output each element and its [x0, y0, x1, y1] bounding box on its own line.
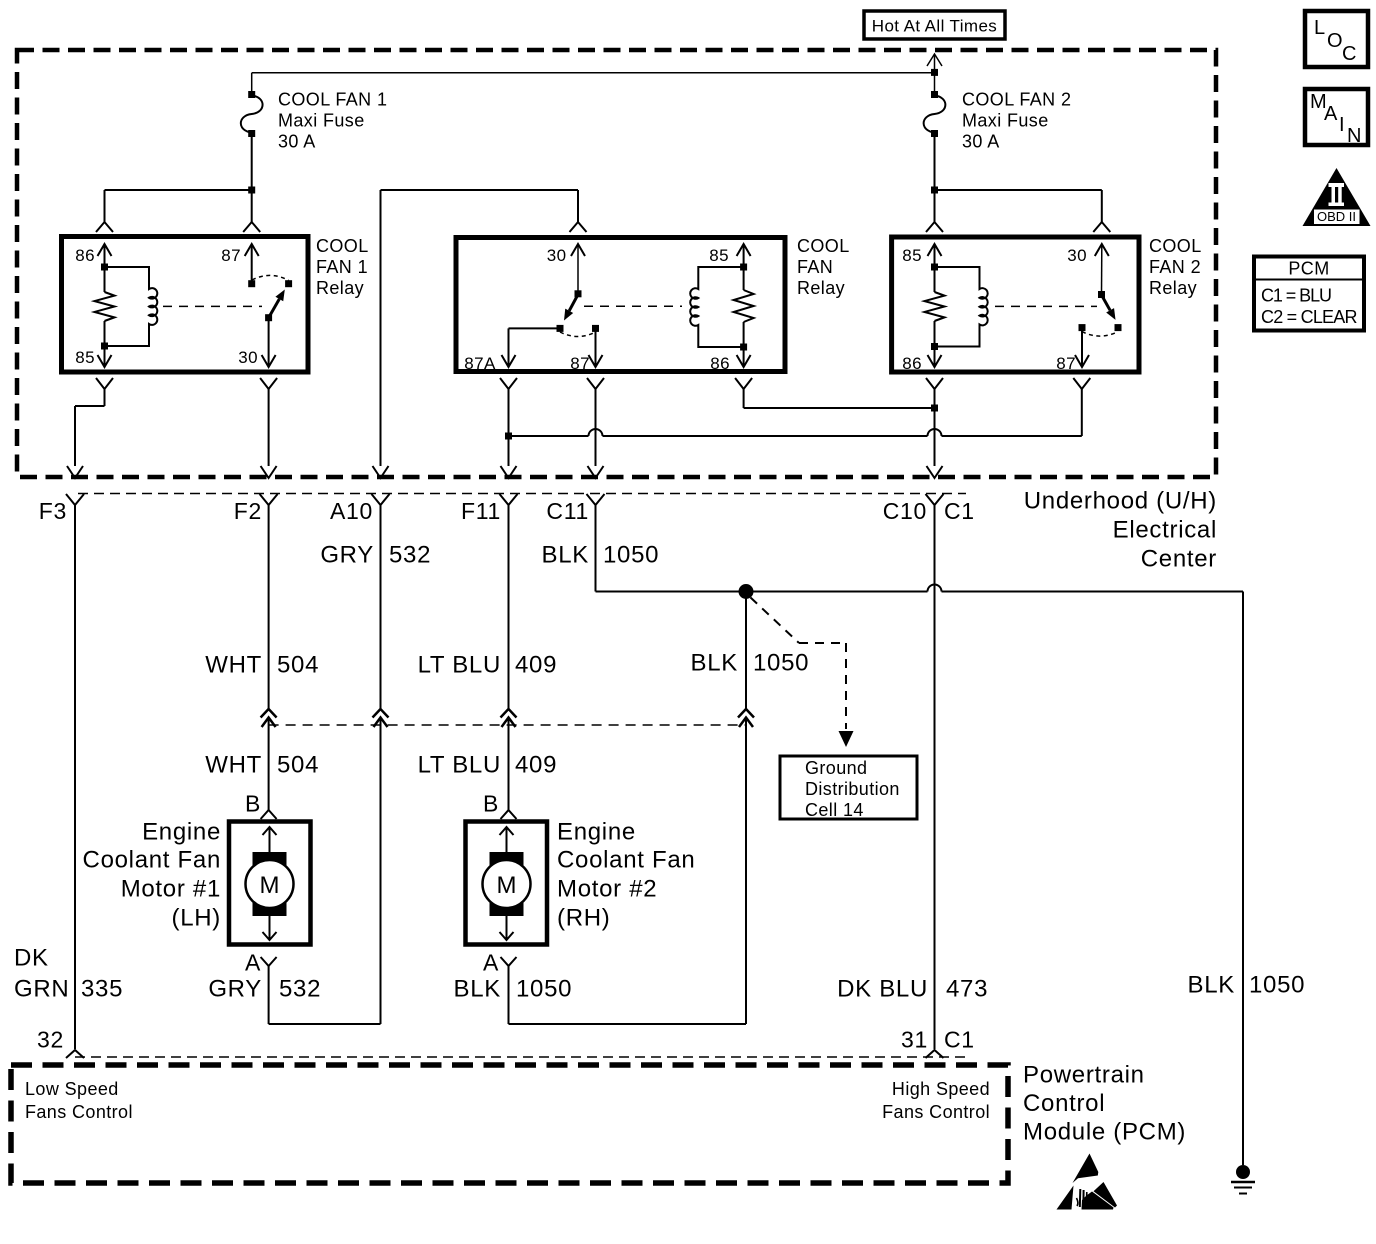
- label: Engine Coolant Fan Motor #2 (RH): [557, 819, 695, 932]
- svg-text:Cell 14: Cell 14: [805, 800, 864, 820]
- node: K1 fixed contact 87: [248, 280, 255, 287]
- svg-text:85: 85: [709, 246, 729, 265]
- wire: relay1 30 down to F2: [268, 389, 270, 466]
- svg-text:1050: 1050: [753, 650, 809, 677]
- svg-text:Engine: Engine: [557, 819, 636, 846]
- svg-text:Coolant Fan: Coolant Fan: [83, 847, 221, 874]
- node: K1 switch throw contact: [285, 280, 292, 287]
- svg-text:L: L: [1314, 17, 1326, 39]
- node: relay1 feed junction: [105, 187, 256, 194]
- arrow into F11 terminal: [501, 466, 517, 478]
- node: K1 common contact 30: [265, 314, 272, 321]
- svg-text:DK BLU: DK BLU: [837, 976, 928, 1003]
- svg-text:C1 = BLU: C1 = BLU: [1261, 286, 1332, 306]
- svg-text:BLK: BLK: [454, 976, 501, 1003]
- svg-text:87: 87: [1056, 354, 1076, 373]
- svg-text:(LH): (LH): [172, 905, 221, 932]
- svg-text:Engine: Engine: [142, 819, 221, 846]
- relay K1 box: COOL FAN 1 Relay: [62, 237, 309, 373]
- svg-text:High Speed: High Speed: [892, 1079, 990, 1099]
- relay K2 coil resistor: [734, 267, 754, 347]
- svg-text:Underhood (U/H): Underhood (U/H): [1024, 488, 1217, 515]
- wire F2 / WHT 504 upper: [268, 505, 270, 709]
- relay K1 pin 30 terminal: [238, 318, 275, 367]
- in-line connector on GRY 532: [373, 709, 389, 727]
- svg-text:532: 532: [389, 542, 431, 569]
- connector label C1 at PCM: [944, 1027, 975, 1053]
- svg-text:A10: A10: [330, 498, 373, 524]
- node: 87A junction to F11: [505, 433, 512, 467]
- label: Engine Coolant Fan Motor #1 (LH): [83, 819, 221, 932]
- relay K2 pin 87A terminal: [464, 346, 515, 373]
- label: COOL FAN 2 Maxi Fuse 30 A: [962, 90, 1071, 152]
- svg-text:31: 31: [901, 1027, 928, 1053]
- connector chevron above relay1: [96, 222, 113, 232]
- Underhood Electrical Center dashed boundary box: [17, 50, 1216, 477]
- svg-text:F11: F11: [461, 498, 501, 524]
- svg-text:(RH): (RH): [557, 905, 610, 932]
- terminal chevron C10: [926, 494, 944, 505]
- svg-text:BLK: BLK: [691, 650, 738, 677]
- terminal label 31: [901, 1027, 928, 1053]
- connector chevron above relay3: [926, 222, 943, 232]
- motor M2 lower brush: [490, 898, 524, 940]
- label: COOL FAN 1 Maxi Fuse 30 A: [278, 90, 387, 152]
- svg-text:532: 532: [279, 976, 321, 1003]
- fuse F1: COOL FAN 1 Maxi Fuse 30A: [241, 73, 263, 137]
- motor terminal B chevron (motor1): [245, 791, 277, 820]
- motor M1 box: [229, 822, 311, 945]
- connector label C1: [944, 498, 975, 524]
- connector chevron below relay3 pin87: [1073, 378, 1090, 389]
- wire label WHT 504 lower: [205, 752, 319, 779]
- relay K2 pin 85 terminal: [709, 244, 750, 267]
- terminal label F11: [461, 498, 501, 524]
- wire: BLK 1050 ground bus: [596, 585, 1244, 592]
- wire label GRY 532 lower: [208, 976, 321, 1003]
- svg-text:PCM: PCM: [1288, 259, 1329, 279]
- wire: BLK 1050 down right side: [1242, 592, 1244, 1166]
- svg-text:WHT: WHT: [205, 652, 262, 679]
- relay K1 label: [316, 236, 369, 298]
- motor M2 upper brush: [490, 827, 524, 868]
- relay K1 pin 85 terminal: [75, 346, 111, 367]
- svg-text:COOL: COOL: [316, 236, 369, 256]
- svg-text:FAN 1: FAN 1: [316, 257, 368, 277]
- svg-text:Powertrain: Powertrain: [1023, 1062, 1145, 1089]
- svg-text:Motor #2: Motor #2: [557, 876, 657, 903]
- relay K2 coil winding: [690, 267, 743, 347]
- terminal chevron C11: [587, 494, 605, 505]
- relay K3 coil winding: [935, 267, 988, 347]
- arrow into F3 terminal: [67, 466, 83, 478]
- motor M1 armature circle: [246, 860, 294, 908]
- svg-text:F3: F3: [39, 498, 67, 524]
- motor M2 armature circle: [483, 860, 531, 908]
- in-line connector on WHT 504: [261, 709, 277, 727]
- svg-text:1050: 1050: [516, 976, 572, 1003]
- wire label DK GRN 335: [14, 945, 123, 1003]
- relay K3 pin 87 terminal: [1056, 328, 1089, 373]
- wire label BLK 1050 right: [1188, 972, 1306, 999]
- connector chevron below relay1 pin30: [260, 378, 277, 389]
- connector chevron below relay2 pin87: [587, 378, 604, 389]
- svg-text:C11: C11: [546, 498, 589, 524]
- svg-text:B: B: [245, 791, 261, 817]
- svg-text:DK: DK: [14, 945, 49, 972]
- node: K2 coil top: [740, 264, 747, 271]
- relay K1 coil winding: [105, 267, 158, 346]
- svg-text:Relay: Relay: [797, 278, 845, 298]
- wire A10 / GRY 532 upper: [380, 505, 382, 709]
- in-line connector dashed face: [269, 724, 746, 726]
- svg-text:LT BLU: LT BLU: [418, 752, 501, 779]
- PCM dashed boundary box: [11, 1065, 1008, 1183]
- ground G100 symbol: [1231, 1165, 1255, 1194]
- svg-text:Hot At All Times: Hot At All Times: [872, 17, 997, 36]
- relay K2 label: [797, 236, 850, 298]
- relay K2 pin 86 terminal: [710, 347, 750, 373]
- svg-text:87: 87: [221, 246, 241, 265]
- svg-text:Coolant Fan: Coolant Fan: [557, 847, 695, 874]
- svg-text:A: A: [245, 950, 261, 976]
- svg-text:F2: F2: [234, 498, 262, 524]
- node: K2 coil bottom: [740, 344, 747, 351]
- svg-text:C1: C1: [944, 1027, 975, 1053]
- legend box LOC: [1305, 11, 1368, 67]
- svg-text:30 A: 30 A: [278, 132, 316, 152]
- ESD sensitive device symbol: [1057, 1154, 1118, 1210]
- relay K3 pin 86 terminal: [902, 347, 941, 374]
- svg-text:504: 504: [277, 752, 319, 779]
- label: Powertrain Control Module (PCM): [1023, 1062, 1186, 1146]
- motor M1 upper brush: [253, 827, 287, 868]
- relay K3 switch blade: [1102, 295, 1116, 320]
- wire: branch to relay3 pin30: [1101, 190, 1103, 222]
- svg-text:WHT: WHT: [205, 752, 262, 779]
- relay K3 coil resistor: [925, 267, 945, 347]
- terminal chevron F2: [260, 494, 278, 505]
- node: K3 fixed contact 87: [1079, 324, 1086, 331]
- svg-text:COOL: COOL: [1149, 236, 1202, 256]
- arrow into C11 terminal: [588, 466, 604, 478]
- relay K3 label: [1149, 236, 1202, 298]
- svg-text:Relay: Relay: [1149, 278, 1197, 298]
- relay K1 contact gap dashed arc: [252, 275, 289, 280]
- svg-text:409: 409: [515, 752, 557, 779]
- legend OBD II triangle: [1303, 168, 1371, 226]
- connector chevron above relay1: [243, 222, 260, 232]
- wire label BLK 1050 lower: [454, 976, 573, 1003]
- wire LT BLU 409 to motor2 B: [508, 727, 510, 810]
- svg-text:335: 335: [81, 976, 123, 1003]
- svg-text:COOL FAN 1: COOL FAN 1: [278, 90, 387, 110]
- relay K3 box: COOL FAN 2 Relay: [892, 237, 1139, 372]
- wire: relay3 86 down to junction: [934, 389, 936, 408]
- relay K3 actuation dashed link: [995, 305, 1097, 307]
- terminal label F2: [234, 498, 262, 524]
- wire: fuse2 to junction: [934, 136, 936, 190]
- svg-text:86: 86: [902, 354, 922, 373]
- wire: relay2 87A down to junction: [508, 389, 510, 436]
- svg-text:Motor #1: Motor #1: [121, 876, 221, 903]
- svg-text:GRN: GRN: [14, 976, 69, 1003]
- svg-text:FAN: FAN: [797, 257, 833, 277]
- svg-text:Module (PCM): Module (PCM): [1023, 1119, 1186, 1146]
- relay K3 pin 30 terminal: [1067, 244, 1109, 295]
- wire BLK 1050 lower run: [745, 727, 747, 1024]
- svg-text:Low Speed: Low Speed: [25, 1079, 119, 1099]
- node: K2 fixed contact 87A: [557, 325, 564, 332]
- svg-text:O: O: [1327, 30, 1343, 52]
- svg-text:B: B: [483, 791, 499, 817]
- dashed reference to Ground Distribution: [751, 598, 854, 748]
- relay K1 coil resistor: [95, 267, 115, 346]
- svg-text:Maxi Fuse: Maxi Fuse: [278, 111, 365, 131]
- svg-text:Center: Center: [1141, 546, 1217, 573]
- wire: fuse1 to junction: [251, 136, 253, 190]
- relay K1 pin 87 terminal: [221, 244, 258, 284]
- svg-text:I: I: [1339, 114, 1345, 136]
- svg-text:M: M: [260, 872, 280, 899]
- relay K2 contact gap dashed arc: [560, 332, 596, 337]
- connector chevron above relay2: [570, 222, 587, 232]
- label: Underhood (U/H) Electrical Center: [1024, 488, 1217, 573]
- label: Low Speed Fans Control: [25, 1079, 133, 1122]
- svg-text:COOL: COOL: [797, 236, 850, 256]
- wire label BLK 1050 at C11: [542, 542, 660, 569]
- arrow into A10 terminal: [373, 466, 389, 478]
- svg-text:Control: Control: [1023, 1090, 1105, 1117]
- connector chevron below relay3 pin86: [926, 378, 943, 389]
- PCM connector face dashed line: [75, 1056, 966, 1058]
- svg-text:Fans Control: Fans Control: [25, 1102, 133, 1122]
- wire GRY 532 lower run: [380, 727, 382, 1024]
- svg-text:M: M: [497, 872, 517, 899]
- wire: branch to relay1 pin86: [104, 190, 106, 222]
- terminal label C11: [546, 498, 589, 524]
- node: K2 fixed contact 87: [592, 325, 599, 332]
- connector chevron below relay2 pin87A: [500, 378, 517, 389]
- node: ground bus junction dot: [739, 584, 754, 599]
- motor terminal A chevron (motor2): [483, 950, 517, 976]
- node: K1 coil bottom: [101, 343, 108, 350]
- wire: relay2 87 down to C11: [595, 389, 597, 466]
- wire: motor2 A to BLK 1050 return: [509, 966, 747, 1024]
- svg-text:86: 86: [75, 246, 95, 265]
- svg-text:1050: 1050: [1249, 972, 1305, 999]
- PCM terminal chevron 31: [926, 1050, 944, 1058]
- legend box PCM connectors: [1254, 257, 1364, 331]
- connector chevron below relay1 pin85: [96, 378, 113, 389]
- terminal label 32: [37, 1027, 64, 1053]
- svg-text:85: 85: [75, 348, 95, 367]
- relay K1 actuation dashed link: [163, 305, 262, 307]
- legend box MAIN: [1305, 89, 1368, 147]
- terminal chevron A10: [372, 494, 390, 505]
- node: relay3 feed junction: [931, 187, 1102, 194]
- node: ground junction under relay3: [931, 405, 938, 412]
- node: K3 throw contact: [1115, 324, 1122, 331]
- label box: Hot At All Times: [864, 11, 1005, 39]
- relay K2 actuation dashed link: [584, 305, 682, 307]
- svg-text:87: 87: [570, 354, 590, 373]
- wire F3 to PCM 32: [74, 505, 76, 1049]
- wire WHT 504 to motor1 B: [268, 727, 270, 810]
- node: K3 coil bottom: [931, 343, 938, 350]
- svg-text:Maxi Fuse: Maxi Fuse: [962, 111, 1049, 131]
- svg-text:409: 409: [515, 652, 557, 679]
- svg-text:32: 32: [37, 1027, 64, 1053]
- wire label LT BLU 409 lower: [418, 752, 558, 779]
- wire label GRY 532: [320, 542, 431, 569]
- terminal label A10: [330, 498, 373, 524]
- svg-text:473: 473: [946, 976, 988, 1003]
- svg-text:87A: 87A: [464, 354, 496, 373]
- relay K2 pin 30 terminal: [547, 244, 585, 294]
- connector chevron below relay2 pin86: [735, 378, 752, 389]
- svg-text:C: C: [1342, 43, 1357, 65]
- svg-text:GRY: GRY: [320, 542, 374, 569]
- svg-text:C10: C10: [883, 498, 927, 524]
- wire: relay1 85 jog to F3: [75, 389, 105, 466]
- in-line connector on LT BLU 409: [501, 709, 517, 727]
- node: fuse feed junction B+: [252, 69, 938, 76]
- motor terminal B chevron (motor2): [483, 791, 517, 820]
- label box: Ground Distribution Cell 14: [780, 756, 917, 820]
- relay K3 pin 85 terminal: [902, 244, 941, 267]
- svg-text:30 A: 30 A: [962, 132, 1000, 152]
- arrow into F2 terminal: [261, 466, 277, 478]
- svg-text:A: A: [483, 950, 499, 976]
- svg-text:C1: C1: [944, 498, 975, 524]
- U/H connector face dashed line: [78, 493, 966, 495]
- PCM terminal chevron 32: [66, 1050, 84, 1058]
- node: K3 common contact 30: [1098, 291, 1105, 298]
- relay K1 switch blade: [269, 290, 285, 318]
- svg-text:30: 30: [1067, 246, 1087, 265]
- wire: A10 riser to relay2 pin30: [381, 190, 579, 466]
- svg-text:GRY: GRY: [208, 976, 262, 1003]
- svg-text:C2 = CLEAR: C2 = CLEAR: [1261, 307, 1358, 327]
- node: K3 coil top: [931, 264, 938, 271]
- wire: fuse1 junction down to relay1 pin87: [251, 190, 253, 222]
- connector chevron above relay3: [1093, 222, 1110, 232]
- arrow into C10 terminal: [927, 466, 943, 478]
- terminal chevron F11: [500, 494, 518, 505]
- motor M1 lower brush: [253, 898, 287, 940]
- wire F11 / LT BLU 409 upper: [508, 505, 510, 709]
- wire: junction down to C10: [934, 408, 936, 466]
- svg-text:30: 30: [547, 246, 567, 265]
- svg-text:85: 85: [902, 246, 922, 265]
- svg-text:LT BLU: LT BLU: [418, 652, 501, 679]
- svg-text:86: 86: [710, 354, 730, 373]
- node: K1 coil top: [101, 264, 108, 271]
- svg-text:1050: 1050: [603, 542, 659, 569]
- wire: battery feed arrow into U/H center: [927, 54, 942, 72]
- svg-text:FAN 2: FAN 2: [1149, 257, 1201, 277]
- in-line connector on BLK 1050: [738, 709, 754, 727]
- wire: BLK 1050 mid drop: [745, 592, 747, 710]
- svg-text:BLK: BLK: [1188, 972, 1235, 999]
- wire: K2 87A internal: [509, 328, 561, 346]
- svg-text:Ground: Ground: [805, 758, 867, 778]
- motor terminal A chevron (motor1): [245, 950, 277, 976]
- terminal label F3: [39, 498, 67, 524]
- svg-text:Electrical: Electrical: [1113, 517, 1217, 544]
- svg-text:BLK: BLK: [542, 542, 589, 569]
- label: High Speed Fans Control: [882, 1079, 990, 1122]
- wire label LT BLU 409 upper: [418, 652, 558, 679]
- wire: motor1 A to GRY 532 return: [269, 966, 381, 1024]
- svg-text:Relay: Relay: [316, 278, 364, 298]
- relay K2 box: COOL FAN Relay: [456, 238, 785, 372]
- svg-text:Distribution: Distribution: [805, 779, 900, 799]
- node: K2 common contact 30: [575, 290, 582, 297]
- svg-text:N: N: [1347, 125, 1362, 147]
- wire label WHT 504 upper: [205, 652, 319, 679]
- svg-text:A: A: [1324, 103, 1338, 125]
- relay K3 contact gap dashed arc: [1082, 332, 1118, 337]
- wire label BLK 1050 mid: [691, 650, 810, 677]
- wire C11 to ground bus: [595, 505, 597, 592]
- wire label DK BLU 473: [837, 976, 988, 1003]
- wire C10 to PCM 31: [934, 505, 936, 1049]
- svg-text:30: 30: [238, 348, 258, 367]
- wire: relay2 86 to common ground junction: [744, 389, 935, 408]
- fuse F2: COOL FAN 2 Maxi Fuse 30A: [924, 73, 946, 137]
- wire: fuse2 junction down to relay3 pin85: [934, 190, 936, 222]
- relay K2 pin 87 terminal: [570, 328, 602, 373]
- wire: 87A crossover to relay3 pin87: [509, 389, 1082, 436]
- svg-text:504: 504: [277, 652, 319, 679]
- relay K2 switch blade: [564, 295, 578, 321]
- svg-text:OBD II: OBD II: [1317, 209, 1356, 224]
- svg-text:Fans Control: Fans Control: [882, 1102, 990, 1122]
- terminal label C10: [883, 498, 927, 524]
- relay K1 pin 86 terminal: [75, 244, 111, 267]
- svg-text:COOL FAN 2: COOL FAN 2: [962, 90, 1071, 110]
- terminal chevron F3: [66, 494, 84, 505]
- motor M2 box: [466, 822, 548, 945]
